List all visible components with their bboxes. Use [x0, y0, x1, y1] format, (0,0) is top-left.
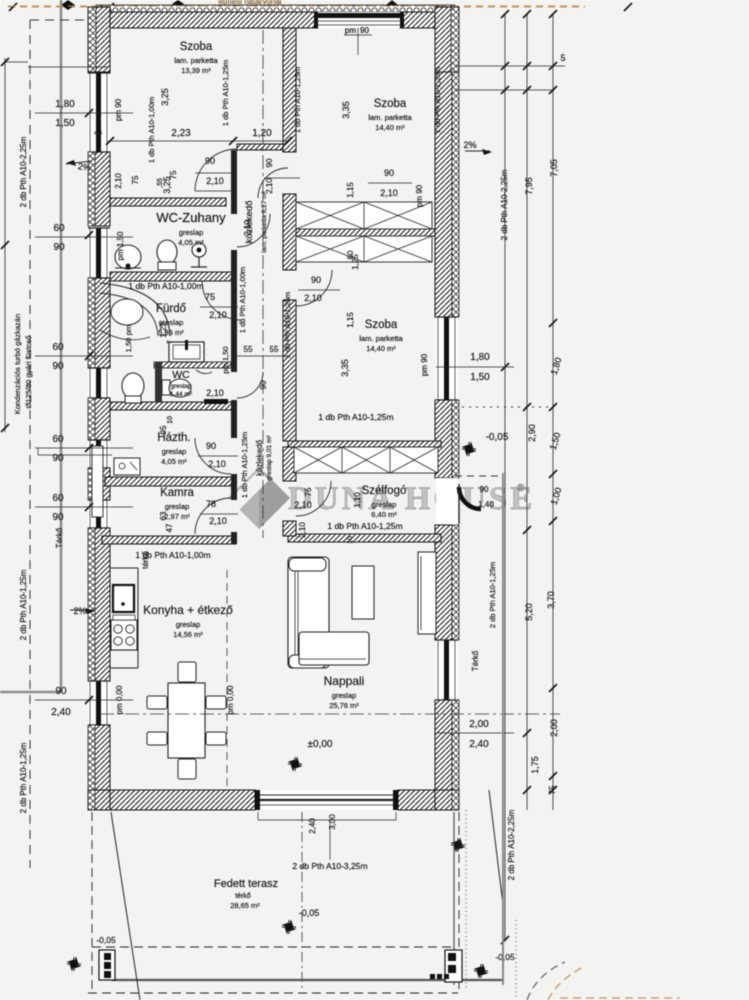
svg-text:60: 60	[52, 493, 64, 504]
svg-text:greslap: greslap	[162, 447, 187, 456]
svg-text:greslap: greslap	[332, 691, 357, 700]
svg-text:14,56 m²: 14,56 m²	[173, 630, 203, 639]
svg-text:lam. parketta 6,27 m²: lam. parketta 6,27 m²	[261, 190, 268, 252]
svg-text:3,35: 3,35	[341, 101, 351, 119]
svg-text:5,20: 5,20	[524, 603, 534, 621]
svg-text:1 db Pth A10-1,25m: 1 db Pth A10-1,25m	[318, 412, 393, 422]
svg-text:Ø125/80 gyári füstcső: Ø125/80 gyári füstcső	[24, 336, 33, 409]
svg-text:2 db Pth A10-3,25m: 2 db Pth A10-3,25m	[292, 861, 367, 871]
svg-text:48: 48	[94, 130, 102, 137]
svg-text:1 db Pth A10-1,25m: 1 db Pth A10-1,25m	[433, 67, 442, 133]
svg-text:pm 90: pm 90	[114, 98, 123, 121]
svg-text:2,00: 2,00	[469, 719, 489, 730]
svg-text:7: 7	[167, 340, 174, 344]
svg-text:Konyha + étkező: Konyha + étkező	[143, 603, 233, 617]
svg-text:1,10: 1,10	[353, 492, 362, 508]
svg-text:60: 60	[53, 223, 65, 234]
svg-text:90: 90	[265, 158, 274, 167]
svg-text:60: 60	[52, 342, 64, 353]
svg-text:greslap: greslap	[176, 620, 201, 629]
svg-text:90: 90	[480, 485, 489, 494]
svg-text:4,05 m²: 4,05 m²	[178, 238, 204, 247]
svg-text:pm: pm	[345, 26, 356, 35]
svg-text:pm: pm	[124, 325, 133, 335]
svg-text:1 db Pth A10-1,00m: 1 db Pth A10-1,00m	[238, 267, 247, 333]
svg-text:Fürdő: Fürdő	[156, 303, 186, 315]
svg-text:3,25: 3,25	[160, 88, 170, 106]
svg-text:1,15: 1,15	[346, 182, 355, 198]
svg-text:90: 90	[360, 26, 369, 35]
svg-text:1 db Pth A10-1,25m: 1 db Pth A10-1,25m	[283, 292, 292, 358]
svg-text:térkő: térkő	[235, 893, 251, 900]
svg-text:Szoba: Szoba	[374, 98, 407, 110]
svg-text:78: 78	[206, 499, 216, 509]
svg-text:pm 90: pm 90	[415, 184, 424, 207]
svg-text:2 db Pth A10-1,25m: 2 db Pth A10-1,25m	[19, 569, 28, 640]
svg-text:2,97 m²: 2,97 m²	[164, 512, 190, 521]
svg-text:63: 63	[159, 511, 168, 520]
svg-text:2 db Pth A10-1,25m: 2 db Pth A10-1,25m	[19, 742, 28, 813]
svg-text:1,44 m²: 1,44 m²	[170, 391, 193, 398]
svg-text:90: 90	[55, 686, 67, 697]
svg-text:WC: WC	[172, 369, 190, 381]
svg-text:2,10: 2,10	[206, 388, 224, 398]
svg-text:90: 90	[52, 361, 64, 372]
svg-text:1 db Pth A10-1,00m: 1 db Pth A10-1,00m	[128, 281, 203, 291]
svg-text:28,65 m²: 28,65 m²	[230, 901, 260, 910]
svg-text:WC-Zuhany: WC-Zuhany	[156, 210, 226, 225]
svg-text:pm 90: pm 90	[420, 353, 429, 376]
svg-text:10: 10	[347, 536, 354, 544]
svg-text:Fedett terasz: Fedett terasz	[214, 878, 278, 890]
svg-text:2 db Pth A10-2,25m: 2 db Pth A10-2,25m	[19, 136, 28, 207]
svg-text:90: 90	[52, 512, 64, 523]
svg-text:2,23: 2,23	[171, 128, 191, 139]
svg-text:90: 90	[205, 156, 215, 166]
svg-text:75: 75	[205, 292, 215, 302]
svg-text:Kamra: Kamra	[160, 487, 194, 499]
svg-text:75: 75	[131, 175, 140, 184]
svg-text:14,40 m²: 14,40 m²	[366, 344, 396, 353]
svg-text:75: 75	[304, 487, 313, 496]
svg-text:1,15: 1,15	[346, 312, 355, 328]
svg-text:,55: ,55	[157, 178, 164, 188]
svg-text:1,50: 1,50	[55, 118, 75, 129]
svg-text:2,10: 2,10	[294, 500, 312, 510]
svg-text:Szoba: Szoba	[365, 319, 398, 331]
svg-text:lam. parketta: lam. parketta	[174, 56, 218, 65]
svg-text:1,50: 1,50	[470, 372, 490, 383]
svg-text:1,20: 1,20	[252, 128, 272, 139]
svg-text:55: 55	[244, 345, 253, 354]
svg-text:2%: 2%	[463, 140, 476, 150]
svg-text:Szoba: Szoba	[180, 41, 213, 53]
svg-text:pm 1,50: pm 1,50	[116, 231, 125, 260]
svg-text:1 db Pth A10-1,25m: 1 db Pth A10-1,25m	[221, 60, 230, 126]
svg-text:2,10: 2,10	[209, 310, 227, 320]
svg-text:1,22: 1,22	[159, 322, 168, 338]
svg-text:25,76 m²: 25,76 m²	[329, 701, 359, 710]
svg-text:Térkő: Térkő	[55, 527, 64, 548]
svg-text:1 db Pth A10-1,25m: 1 db Pth A10-1,25m	[327, 521, 402, 531]
svg-text:2 db Pth A10-2,25m: 2 db Pth A10-2,25m	[507, 809, 516, 880]
svg-text:90: 90	[384, 168, 394, 178]
svg-text:-0,05: -0,05	[96, 935, 116, 945]
svg-text:95: 95	[159, 425, 168, 434]
svg-text:térkő: térkő	[141, 551, 150, 569]
svg-text:Kondenzációs turbó gázkazán: Kondenzációs turbó gázkazán	[13, 314, 22, 415]
svg-text:-0,05: -0,05	[495, 952, 515, 962]
svg-text:®: ®	[517, 483, 525, 494]
svg-text:2,10: 2,10	[243, 220, 252, 236]
svg-text:1 db Pth A10-1,25m: 1 db Pth A10-1,25m	[293, 67, 302, 133]
svg-text:90: 90	[259, 380, 268, 389]
svg-text:10: 10	[167, 416, 174, 424]
svg-text:1,50: 1,50	[124, 338, 133, 353]
svg-text:lam. parketta: lam. parketta	[368, 113, 412, 122]
svg-text:2,40: 2,40	[469, 739, 489, 750]
svg-text:2,10: 2,10	[380, 188, 398, 198]
svg-text:1 db Pth A10-1,25m: 1 db Pth A10-1,25m	[240, 432, 249, 498]
svg-text:4,05 m²: 4,05 m²	[161, 457, 187, 466]
svg-text:13,39 m²: 13,39 m²	[181, 66, 211, 75]
svg-text:2,10: 2,10	[304, 293, 322, 303]
svg-text:1 db Pth A10-1,00m: 1 db Pth A10-1,00m	[147, 97, 156, 163]
svg-text:lam. parketta: lam. parketta	[359, 334, 403, 343]
svg-text:90: 90	[311, 275, 321, 285]
svg-text:7,95: 7,95	[524, 177, 534, 195]
svg-text:DUNA HOUSE: DUNA HOUSE	[288, 481, 535, 517]
svg-text:±0,00: ±0,00	[308, 739, 333, 750]
svg-text:2%: 2%	[73, 606, 86, 616]
svg-text:7,05: 7,05	[549, 159, 559, 177]
svg-text:2,10: 2,10	[298, 522, 307, 538]
svg-text:2,40: 2,40	[51, 707, 71, 718]
svg-text:3,70: 3,70	[546, 591, 556, 609]
svg-text:Nappali: Nappali	[324, 674, 365, 688]
svg-text:2,10: 2,10	[206, 176, 224, 186]
svg-text:1,25: 1,25	[351, 254, 360, 270]
svg-text:Térkő: Térkő	[471, 650, 480, 671]
svg-text:6,40 m²: 6,40 m²	[371, 510, 397, 519]
svg-text:2,10: 2,10	[209, 516, 227, 526]
svg-text:75: 75	[548, 785, 557, 794]
svg-text:1,80: 1,80	[55, 99, 75, 110]
svg-text:2%: 2%	[77, 161, 91, 173]
svg-text:Szélfogó: Szélfogó	[362, 485, 407, 497]
svg-text:greslap 9,01 m²: greslap 9,01 m²	[266, 435, 273, 481]
svg-text:90: 90	[53, 242, 65, 253]
svg-text:47: 47	[165, 523, 174, 532]
svg-text:2,10: 2,10	[114, 173, 123, 189]
svg-text:90: 90	[206, 441, 216, 451]
svg-text:greslap: greslap	[372, 500, 397, 509]
svg-text:greslap: greslap	[165, 502, 190, 511]
svg-text:55: 55	[270, 345, 279, 354]
svg-text:2,90: 2,90	[527, 424, 537, 442]
svg-text:1,40: 1,40	[478, 500, 494, 509]
svg-text:greslap: greslap	[170, 383, 192, 390]
svg-text:1,80: 1,80	[470, 352, 490, 363]
svg-text:2,10: 2,10	[208, 459, 226, 469]
svg-text:1,75: 1,75	[530, 756, 540, 774]
svg-text:pm 1,50: pm 1,50	[221, 346, 230, 373]
svg-text:2,00: 2,00	[549, 719, 559, 737]
svg-text:2,10: 2,10	[265, 178, 274, 194]
svg-text:2 db Pth A10-2,25m: 2 db Pth A10-2,25m	[500, 169, 509, 240]
svg-text:3,35: 3,35	[340, 359, 350, 377]
svg-text:3,00: 3,00	[328, 814, 337, 830]
svg-text:14,40 m²: 14,40 m²	[375, 123, 405, 132]
svg-text:5: 5	[560, 53, 565, 63]
svg-text:75: 75	[169, 170, 178, 179]
svg-text:2 db Pth A10-1,25m: 2 db Pth A10-1,25m	[488, 562, 497, 628]
svg-text:60: 60	[52, 434, 64, 445]
svg-text:greslap: greslap	[179, 228, 204, 237]
